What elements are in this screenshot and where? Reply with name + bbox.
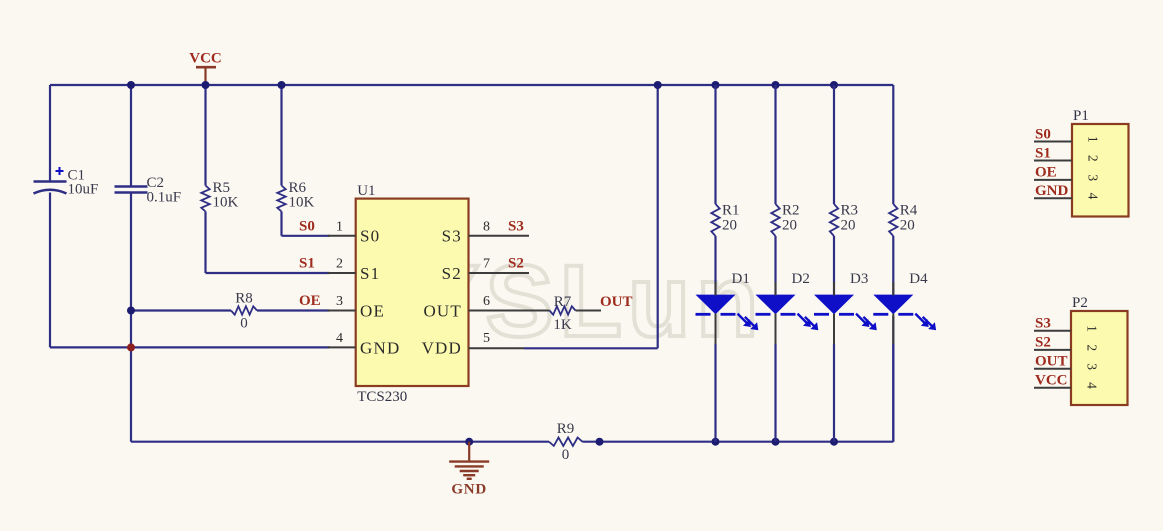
wire R3 branch upper (833, 85, 835, 204)
svg-text:D1: D1 (732, 271, 750, 287)
svg-text:OE: OE (1035, 165, 1057, 181)
svg-text:OUT: OUT (600, 294, 633, 310)
wire R6 column lower (280, 212, 282, 236)
junction top rail / R1 (712, 81, 720, 89)
pin stub above D3 (833, 282, 835, 296)
svg-text:20: 20 (782, 218, 797, 234)
svg-text:R1: R1 (722, 203, 740, 219)
wire D2 branch lower (774, 344, 776, 442)
wire S0 row to U1 pin1 (282, 235, 330, 237)
svg-text:S3: S3 (1035, 316, 1051, 332)
svg-text:1: 1 (1085, 325, 1100, 332)
LED D4 (873, 295, 936, 331)
svg-text:S2: S2 (442, 264, 462, 283)
svg-text:R4: R4 (900, 203, 918, 219)
junction OE row / C2 column (127, 307, 135, 315)
wire bottom rail right (582, 441, 893, 443)
wire OUT row left of R7 (520, 310, 550, 312)
junction top rail / VDD riser (654, 81, 662, 89)
wire D1 branch lower (714, 344, 716, 442)
LED D1 (696, 295, 759, 331)
svg-text:OUT: OUT (423, 301, 462, 320)
svg-text:D4: D4 (909, 271, 928, 287)
svg-text:3: 3 (1085, 363, 1100, 370)
wire R5 column lower (204, 212, 206, 274)
svg-text:S0: S0 (360, 227, 380, 246)
junction bottom rail / D1 (712, 438, 720, 446)
svg-text:10K: 10K (289, 195, 315, 211)
pin stub above D1 (715, 282, 717, 296)
svg-text:5: 5 (483, 331, 490, 346)
svg-text:3: 3 (1086, 174, 1101, 181)
pin stub below D4 (892, 314, 894, 344)
svg-text:U1: U1 (357, 183, 375, 199)
wire C1 column lower (49, 193, 51, 348)
pin 2 stub of U1 (328, 272, 356, 274)
svg-text:VCC: VCC (1035, 373, 1068, 389)
svg-text:20: 20 (841, 218, 856, 234)
wire OUT row right of R7 (576, 310, 602, 312)
junction bottom rail / ground (465, 438, 473, 446)
wire R4 to D4 (892, 236, 894, 296)
junction top rail / C2 (127, 81, 135, 89)
svg-text:R3: R3 (841, 203, 859, 219)
svg-text:20: 20 (722, 218, 737, 234)
pin 6 stub of U1 (469, 310, 521, 312)
IC U1 (TCS230) body (356, 199, 469, 386)
svg-text:P1: P1 (1073, 108, 1089, 124)
wire P2 pin 2 stub (1034, 349, 1071, 351)
svg-text:1: 1 (1086, 136, 1101, 143)
svg-text:S1: S1 (360, 264, 380, 283)
wire OE row left of R8 (131, 309, 231, 311)
wire P1 pin 4 stub (1034, 197, 1072, 199)
wire R2 branch upper (774, 85, 776, 204)
pin 3 stub of U1 (328, 310, 356, 312)
pin 7 stub of U1 (469, 272, 530, 274)
svg-text:S1: S1 (1035, 145, 1051, 161)
wire P1 pin 2 stub (1034, 160, 1072, 162)
svg-text:S2: S2 (1035, 335, 1051, 351)
capacitor C2 (115, 187, 148, 193)
svg-text:VCC: VCC (189, 51, 222, 67)
wire OE row right of R8 (257, 309, 330, 311)
svg-text:OE: OE (360, 301, 385, 320)
resistor R2 (771, 204, 779, 236)
wire S1 row to U1 pin2 (206, 272, 330, 274)
svg-text:D2: D2 (792, 271, 810, 287)
svg-text:S3: S3 (508, 219, 524, 235)
svg-text:4: 4 (1085, 382, 1100, 389)
svg-text:R9: R9 (557, 421, 575, 437)
svg-text:OE: OE (299, 293, 321, 309)
svg-text:20: 20 (900, 218, 915, 234)
pin stub below D1 (715, 314, 717, 344)
pin 1 stub of U1 (328, 235, 356, 237)
pin stub above D4 (892, 282, 894, 296)
pin 4 stub of U1 (328, 346, 356, 348)
svg-text:GND: GND (451, 482, 487, 498)
svg-text:2: 2 (1086, 155, 1101, 162)
wire R2 to D2 (774, 236, 776, 296)
svg-text:7: 7 (483, 257, 490, 272)
wire R6 column upper (280, 85, 282, 186)
svg-text:VDD: VDD (422, 338, 462, 357)
wire bottom rail up to D4 (892, 316, 894, 442)
LED D2 (756, 295, 819, 331)
wire P1 pin 3 stub (1034, 179, 1072, 181)
wire C1 column upper (49, 85, 51, 181)
svg-text:R8: R8 (235, 291, 253, 307)
ground symbol (449, 442, 489, 479)
connector P2 body (1071, 311, 1128, 405)
wire C2 column lower to bottom rail (130, 192, 132, 442)
svg-text:R2: R2 (782, 203, 800, 219)
svg-text:TCS230: TCS230 (357, 389, 407, 405)
capacitor C1 (34, 167, 67, 194)
svg-text:GND: GND (1035, 183, 1069, 199)
wire P2 pin 3 stub (1034, 368, 1071, 370)
svg-text:4: 4 (336, 331, 343, 346)
resistor R8 (231, 306, 257, 314)
svg-text:S0: S0 (299, 219, 315, 235)
svg-text:R7: R7 (554, 294, 572, 310)
svg-text:10uF: 10uF (68, 182, 99, 198)
resistor R4 (889, 204, 897, 236)
svg-text:S2: S2 (508, 256, 524, 272)
junction top rail / R6 (278, 81, 286, 89)
resistor R6 (277, 186, 285, 212)
wire D4 branch lower (892, 344, 894, 442)
svg-text:D3: D3 (850, 271, 868, 287)
LED D3 (814, 295, 877, 331)
svg-text:3: 3 (336, 294, 343, 309)
svg-text:2: 2 (336, 257, 343, 272)
svg-text:P2: P2 (1072, 295, 1088, 311)
junction top rail / R3 (830, 81, 838, 89)
pin 8 stub of U1 (469, 235, 530, 237)
svg-text:1K: 1K (553, 317, 572, 333)
svg-text:4: 4 (1086, 193, 1101, 200)
pin 5 stub of U1 (469, 347, 525, 349)
wire VDD riser to top rail (657, 85, 659, 348)
resistor R9 (549, 438, 582, 446)
wire GND row from C1 to U1 pin4 (50, 346, 330, 348)
wire R3 to D3 (833, 236, 835, 296)
junction bottom rail / R9 right (596, 438, 604, 446)
wire VCC rail right drop to R4 (892, 85, 894, 204)
junction bottom rail / D3 (830, 438, 838, 446)
svg-text:2: 2 (1085, 344, 1100, 351)
svg-text:0: 0 (240, 316, 248, 332)
resistor R5 (201, 186, 209, 212)
pin stub above D2 (775, 282, 777, 296)
wire P2 pin 1 stub (1034, 330, 1071, 332)
svg-text:S0: S0 (1035, 126, 1051, 142)
resistor R1 (711, 204, 719, 236)
svg-text:1: 1 (336, 220, 343, 235)
svg-text:0: 0 (562, 447, 570, 463)
wire C2 column upper (130, 85, 132, 187)
svg-text:S3: S3 (442, 227, 462, 246)
svg-text:S1: S1 (299, 256, 315, 272)
resistor R7 (550, 306, 576, 314)
svg-text:0.1uF: 0.1uF (147, 190, 182, 206)
junction bottom rail / D2 (772, 438, 780, 446)
resistor R3 (830, 204, 838, 236)
wire R1 branch upper (714, 85, 716, 204)
junction top rail / R2 (772, 81, 780, 89)
svg-text:8: 8 (483, 220, 490, 235)
wire R1 to D1 (714, 236, 716, 296)
pin stub below D3 (833, 314, 835, 344)
wire P2 pin 4 stub (1034, 387, 1071, 389)
svg-text:OUT: OUT (1035, 354, 1068, 370)
wire D3 branch lower (833, 344, 835, 442)
junction top rail / VCC R5 (202, 81, 210, 89)
svg-text:GND: GND (360, 338, 400, 357)
junction GND row / C2 column (node GND) (127, 343, 135, 351)
svg-text:10K: 10K (213, 195, 239, 211)
pin stub below D2 (775, 314, 777, 344)
wire R5 column upper (204, 85, 206, 186)
wire VCC top rail (50, 84, 893, 86)
svg-text:6: 6 (483, 294, 490, 309)
power VCC symbol (196, 67, 216, 85)
wire bottom rail left (131, 441, 549, 443)
wire VDD row to riser (524, 347, 658, 349)
wire P1 pin 1 stub (1034, 141, 1072, 143)
connector P1 body (1072, 124, 1129, 217)
